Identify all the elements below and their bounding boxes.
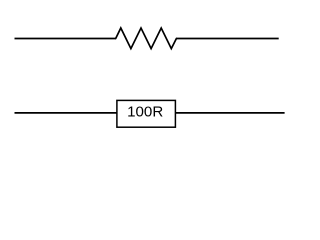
wire: bottom resistor right lead [175, 112, 284, 114]
wire: top resistor left lead [15, 38, 116, 40]
wire: bottom resistor left lead [15, 112, 117, 114]
svg-text:100R: 100R [127, 103, 163, 120]
resistor (ANSI zigzag symbol body) [116, 28, 177, 49]
resistor 100R (IEC box symbol body) [117, 100, 175, 127]
wire: top resistor right lead [176, 38, 279, 40]
